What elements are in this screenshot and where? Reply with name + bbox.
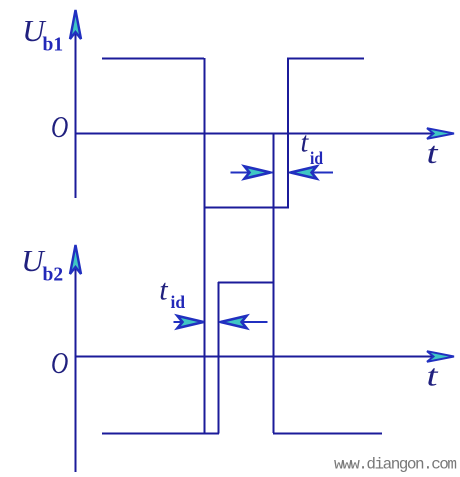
svg-text:t: t [301, 128, 310, 159]
wire falling edge x=204 extended down [204, 58, 206, 433]
waveform U_b2 low segment 2 [273, 433, 382, 435]
arrowhead t2 axis right [427, 351, 454, 362]
arrowhead U_b2 axis up [70, 245, 81, 274]
dim arrow left-pointing (bottom t_id) [219, 321, 268, 323]
axis t1 horizontal [75, 133, 448, 135]
axis t2 horizontal [75, 356, 448, 358]
svg-text:O: O [51, 345, 68, 380]
svg-text:www.diangon.com: www.diangon.com [334, 456, 457, 474]
svg-text:b1: b1 [43, 35, 64, 56]
waveform U_b1 high segment 2 [287, 58, 364, 60]
waveform U_b1 rising edge x=288 [287, 58, 289, 208]
svg-text:t: t [427, 135, 440, 170]
waveform U_b1 low segment [204, 207, 289, 209]
waveform U_b2 low segment 1 [102, 433, 219, 435]
waveform U_b2 rising edge x=218 [218, 282, 220, 434]
arrowhead U_b1 axis up [70, 10, 81, 39]
svg-text:O: O [51, 109, 68, 144]
svg-text:t: t [427, 358, 440, 393]
wire U_b2 falling edge x=273 extended from top axis [273, 134, 275, 434]
svg-text:t: t [159, 274, 168, 307]
svg-text:b2: b2 [43, 265, 64, 286]
svg-text:id: id [171, 292, 186, 312]
waveform U_b1 high segment 1 [102, 58, 204, 60]
arrowhead t1 axis right [427, 128, 454, 139]
axis U_b2 vertical [75, 249, 77, 472]
dim arrow right-pointing (bottom t_id) [174, 321, 205, 323]
dim arrow left-pointing (top t_id) [289, 172, 333, 174]
axis U_b1 vertical [75, 14, 77, 198]
waveform U_b2 high segment [218, 282, 274, 284]
dim arrow right-pointing (top t_id) [231, 172, 274, 174]
